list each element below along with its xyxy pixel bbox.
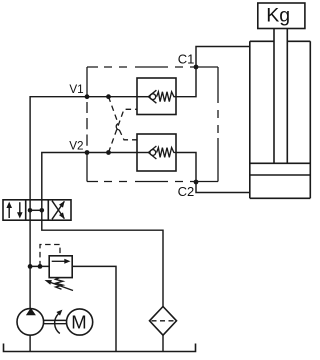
tank line: valve T to filter — [42, 220, 163, 306]
valve right cell crossed arrows — [52, 201, 65, 220]
manifold dashed enclosure top edge — [87, 66, 218, 68]
RV pilot dashes — [40, 245, 60, 267]
svg-text:V2: V2 — [69, 139, 83, 152]
cylinder piston — [250, 163, 310, 175]
pump P1 — [17, 308, 44, 352]
RV input — [30, 265, 49, 267]
V1 line — [30, 97, 137, 200]
manifold dashed enclosure right edge — [217, 67, 219, 182]
node: pilot tap — [38, 264, 43, 269]
pipe C1 to cylinder — [196, 47, 250, 68]
check valve CV2 — [137, 134, 176, 171]
node V1-a — [85, 94, 90, 99]
CV1 output to C1 — [176, 67, 196, 97]
svg-text:Kg: Kg — [266, 5, 290, 27]
load box Kg — [258, 3, 305, 29]
electric motor M1 — [67, 309, 93, 335]
check valve CV1 — [137, 78, 176, 115]
pipe C2 to cylinder — [196, 182, 250, 193]
shaft pump-motor — [44, 320, 67, 323]
node C1 — [194, 65, 199, 70]
pressure line: valve P down to pump — [29, 220, 31, 309]
svg-text:C2: C2 — [178, 184, 195, 199]
cylinder rod — [274, 29, 287, 164]
relief valve RV — [28, 245, 116, 352]
RV spring — [56, 278, 63, 290]
filter to tank — [162, 335, 164, 351]
manifold dashed enclosure bottom edge — [87, 181, 218, 183]
RV output to tank — [72, 266, 116, 351]
rotation arrow — [55, 310, 63, 334]
cylinder barrel — [250, 41, 310, 198]
svg-text:M: M — [71, 312, 86, 333]
node V2-b — [106, 150, 111, 155]
pilot line to CV1 (from V2) — [109, 109, 137, 152]
pump suction to tank — [29, 335, 31, 351]
V2 line — [42, 153, 137, 200]
node: relief tap — [28, 264, 33, 269]
valve port stubs through centre cell — [30, 200, 42, 220]
node V1-b — [106, 94, 111, 99]
directional valve 4/3 body — [3, 200, 71, 220]
reservoir — [4, 344, 196, 352]
filter F1 — [150, 307, 177, 352]
node C2 — [194, 180, 199, 185]
RV adjust arrow — [48, 282, 73, 291]
valve left cell arrows — [6, 202, 22, 219]
node V2-a — [85, 150, 90, 155]
svg-text:C1: C1 — [178, 52, 195, 67]
manifold dashed enclosure left edge — [86, 67, 88, 182]
CV2 output to C2 — [176, 153, 196, 183]
pilot line to CV2 (from V1, crossing with bump) — [109, 97, 119, 124]
valve centre cell: ports closed, A-B bridged — [28, 208, 44, 213]
svg-text:V1: V1 — [69, 83, 83, 96]
